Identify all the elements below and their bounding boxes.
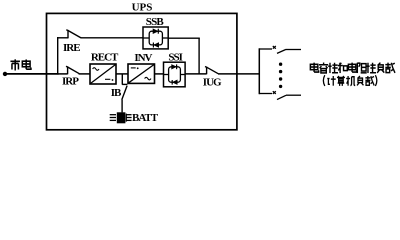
svg-text:SSI: SSI bbox=[168, 52, 182, 64]
svg-text:IRE: IRE bbox=[63, 42, 80, 54]
svg-text:IB: IB bbox=[111, 87, 122, 99]
svg-text:BATT: BATT bbox=[132, 112, 159, 124]
mains input terminal dot bbox=[3, 72, 7, 76]
breaker IUG bbox=[205, 67, 218, 75]
wire: bypass branch to breaker IRE bbox=[57, 37, 68, 39]
wire: mains input to junction A bbox=[5, 73, 59, 75]
load label line 2: (计算机负载) bbox=[323, 75, 377, 86]
static bypass switch SSB bbox=[143, 27, 168, 49]
wire: IRE to SSB bbox=[81, 37, 143, 39]
wire: SSB corner down to output bus node C bbox=[198, 38, 200, 74]
ellipsis dots: more output branches bbox=[279, 62, 282, 88]
wire: SSB output to corner bbox=[168, 37, 200, 39]
UPS enclosure box bbox=[47, 13, 237, 129]
breaker IRP bbox=[66, 66, 79, 74]
static switch SSI bbox=[164, 62, 186, 87]
rectifier RECT bbox=[90, 64, 116, 84]
wire: battery tap node B down to breaker IB bbox=[121, 74, 123, 85]
wire: IUG to load distribution bus bbox=[218, 73, 259, 75]
svg-text:INV: INV bbox=[134, 52, 152, 64]
battery BATT bbox=[110, 112, 132, 123]
wire: IB to battery bbox=[121, 100, 123, 113]
load distribution bus bbox=[258, 48, 260, 94]
svg-text:SSB: SSB bbox=[146, 16, 165, 28]
wire: junction A riser to bypass branch bbox=[57, 37, 59, 74]
svg-text:RECT: RECT bbox=[91, 52, 119, 64]
svg-text:UPS: UPS bbox=[132, 1, 153, 13]
inverter INV bbox=[128, 64, 155, 83]
breaker IB bbox=[122, 84, 128, 99]
wire: INV to SSI bbox=[155, 73, 164, 75]
svg-text:IUG: IUG bbox=[203, 76, 222, 88]
wire: junction A to breaker IRP bbox=[58, 73, 68, 75]
wire: IRP to RECT bbox=[79, 73, 90, 75]
wire: SSI to breaker IUG through node C bbox=[185, 73, 207, 75]
load switch top bbox=[259, 46, 301, 53]
svg-text:IRP: IRP bbox=[62, 75, 79, 87]
breaker IRE bbox=[66, 30, 81, 39]
wire: RECT to INV with battery tap node B bbox=[116, 73, 128, 75]
load label line 1: 电容性和电阻性负载 bbox=[310, 63, 395, 74]
label 市电 (mains) bbox=[10, 59, 31, 70]
load switch bottom bbox=[259, 91, 301, 99]
